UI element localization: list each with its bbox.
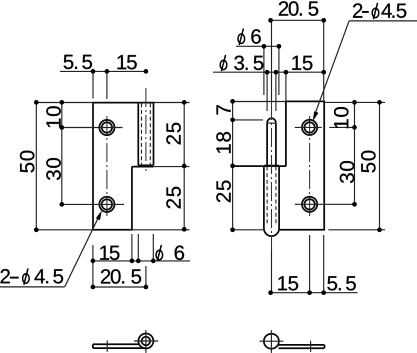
dimension 50 (left side) [20, 100, 93, 232]
left holes center line [106, 116, 108, 217]
dimension 20.5 (top of right figure) [268, 1, 326, 101]
right pin [267, 118, 276, 165]
right knuckle tube [264, 166, 279, 237]
right holes center line [309, 116, 311, 293]
right pin hidden lines inside knuckle [267, 167, 276, 227]
dimension 10 / 30 (left side) [46, 100, 64, 207]
left knuckle center line [145, 88, 147, 171]
dimension 15 / 5.5 (bottom of right figure) [268, 235, 357, 295]
dimension 10 / 30 (right side of right figure) [334, 100, 357, 207]
phi symbol of left 2-phi4.5 label [23, 268, 30, 284]
left leaf knuckle hidden hole lines [142, 103, 151, 165]
right leaf outline [233, 101, 325, 229]
dimension 25 / 25 (right side of left figure) [132, 100, 190, 232]
label 2-phi4.5 with leader (right figure) [313, 3, 417, 121]
dimension phi3.5 and 15 (top of right figure) [213, 55, 326, 111]
right leaf side view [259, 330, 324, 353]
left hole top [62, 120, 123, 135]
dimension 5.5 / 15 (top of left figure) [60, 55, 148, 99]
left hole bottom [62, 197, 124, 212]
right knuckle center line [271, 20, 273, 292]
right hole bottom [295, 197, 355, 212]
phi symbol of right 2-phi4.5 label [372, 3, 379, 19]
left leaf outline [93, 103, 154, 230]
dimension 50 (right side of right figure) [324, 100, 385, 232]
right hole top [295, 120, 355, 135]
phi symbol of phi6 label [156, 245, 163, 261]
phi symbol of right phi6 label [238, 29, 245, 45]
dimension phi6 (right figure knuckle) [236, 29, 281, 95]
phi symbol of phi3.5 label [220, 55, 227, 71]
dimension 20.5 (bottom of left figure) [91, 266, 149, 289]
dimension 15 / phi6 (bottom of left figure) [91, 234, 190, 287]
left leaf side view [93, 330, 158, 353]
label 2-phi4.5 with leader (left figure) [0, 210, 102, 287]
dimension 7 / 18 / 25 (left side of right figure) [216, 99, 286, 232]
